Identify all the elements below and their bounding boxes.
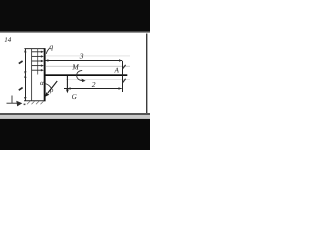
right table border line bbox=[146, 34, 147, 114]
support hatching under base bbox=[27, 101, 44, 104]
adjacent figure fragment (bottom left) bbox=[7, 96, 19, 104]
label 1 (upper segment, slanted dash) bbox=[19, 61, 23, 64]
label 1 (lower segment, slanted dash) bbox=[19, 88, 23, 91]
angle arc bbox=[45, 84, 51, 88]
top black film band bbox=[0, 0, 150, 32]
svg-text:α: α bbox=[40, 79, 44, 87]
page background bbox=[0, 0, 150, 150]
svg-text:2: 2 bbox=[92, 80, 96, 89]
force G arrow bbox=[66, 76, 69, 93]
left dimension line vertical bbox=[24, 49, 26, 101]
column left edge bbox=[31, 49, 33, 101]
bottom black film band bbox=[0, 119, 150, 150]
svg-text:14: 14 bbox=[4, 36, 12, 44]
dimension line 2 (bottom) bbox=[64, 87, 122, 89]
distributed load ladder: inner vertical bbox=[36, 49, 39, 75]
column bottom edge bbox=[24, 100, 46, 102]
bottom light gap bbox=[0, 115, 150, 119]
ghost line upper (faint print-through) bbox=[46, 55, 130, 58]
bottom page-edge rule bbox=[0, 113, 150, 115]
svg-text:A: A bbox=[114, 66, 120, 74]
dimension line 3 (top) bbox=[45, 59, 122, 61]
svg-text:G: G bbox=[72, 93, 78, 101]
column top edge + left dim extension bar bbox=[24, 48, 44, 50]
moment arc with arrow (C opening right, arrow at bottom) bbox=[77, 71, 83, 81]
svg-text:3: 3 bbox=[79, 51, 84, 60]
column right edge (bold) bbox=[44, 48, 46, 101]
load rung arrow 3 bbox=[32, 60, 44, 62]
svg-text:q: q bbox=[49, 42, 53, 51]
beam (bold horizontal member) bbox=[45, 74, 128, 76]
svg-text:ρ: ρ bbox=[49, 86, 54, 94]
force P arrow (into column corner) bbox=[45, 81, 57, 97]
svg-text:M: M bbox=[71, 63, 79, 72]
ghost line lower (faint print-through) bbox=[66, 78, 130, 81]
load rung arrow 2 bbox=[32, 55, 44, 57]
label q with leader bbox=[46, 48, 49, 54]
tick mark 1 (lower) bbox=[123, 79, 126, 83]
load rung arrow 1 bbox=[32, 51, 44, 53]
right extension line bbox=[122, 61, 123, 92]
ghost beam (faint print-through) bbox=[46, 66, 130, 67]
load rung arrow 4 bbox=[32, 64, 44, 66]
load rung arrow 5 bbox=[32, 69, 44, 71]
tick mark 1 (upper) bbox=[123, 65, 126, 69]
